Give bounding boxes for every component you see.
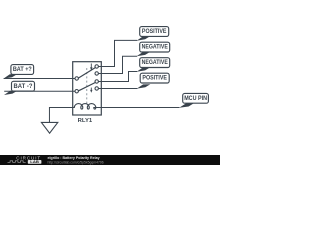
svg-text:NEGATIVE: NEGATIVE — [142, 60, 168, 66]
svg-text:POSITIVE: POSITIVE — [142, 76, 167, 82]
flag NEGATIVE 1 — [137, 42, 170, 56]
armature pole 2 — [78, 83, 95, 91]
flag BAT +? — [4, 65, 34, 79]
wire throw3 to NEGATIVE flag 2 — [98, 72, 137, 82]
throw contact circle 3 — [95, 80, 98, 83]
wire coil to MCU PIN flag — [101, 107, 179, 109]
svg-text:MCU PIN: MCU PIN — [184, 96, 207, 102]
relay box — [73, 62, 102, 115]
svg-text:elgrillo : Battery Polarity Re: elgrillo : Battery Polarity Relay — [48, 156, 100, 160]
wire coil to ground — [49, 108, 72, 123]
svg-text:RLY1: RLY1 — [78, 118, 93, 124]
dashed link line — [86, 68, 88, 104]
armature pole 1 — [78, 68, 95, 79]
svg-text:POSITIVE: POSITIVE — [142, 29, 167, 35]
flag POSITIVE 1 — [137, 27, 169, 41]
common contact circle 1 — [75, 77, 78, 80]
ground — [41, 122, 57, 133]
svg-text:NEGATIVE: NEGATIVE — [142, 45, 168, 51]
wire throw1 to POSITIVE flag — [98, 40, 137, 66]
throw contact circle 1 — [95, 65, 98, 68]
wire throw2 to NEGATIVE flag — [98, 56, 137, 73]
flag POSITIVE 2 — [137, 73, 169, 88]
logo waveform — [8, 161, 26, 163]
svg-text:BAT +?: BAT +? — [13, 67, 32, 73]
wire BAT+ to relay common 1 — [4, 77, 76, 79]
wire throw4 to POSITIVE flag 2 — [98, 87, 137, 89]
wire BAT- to relay common 2 — [4, 90, 75, 92]
coil L1 — [73, 104, 102, 109]
relay RLY1 — [73, 62, 102, 115]
flag BAT -? — [4, 81, 35, 95]
flag MCU PIN — [179, 93, 208, 107]
common contact circle 2 — [75, 90, 78, 93]
logo LAB badge — [28, 160, 42, 164]
svg-text:BAT -?: BAT -? — [14, 84, 33, 90]
svg-text:http://circuitlab.com/c/5p5k5g: http://circuitlab.com/c/5p5k5gqm4796 — [48, 160, 104, 164]
arrow pole 2 — [90, 88, 92, 93]
footer bar — [0, 155, 220, 165]
arrow pole 1 — [90, 64, 92, 71]
flag NEGATIVE 2 — [137, 58, 170, 72]
throw contact circle 2 — [95, 72, 98, 75]
svg-text:LAB: LAB — [30, 160, 39, 164]
throw contact circle 4 — [95, 87, 98, 90]
